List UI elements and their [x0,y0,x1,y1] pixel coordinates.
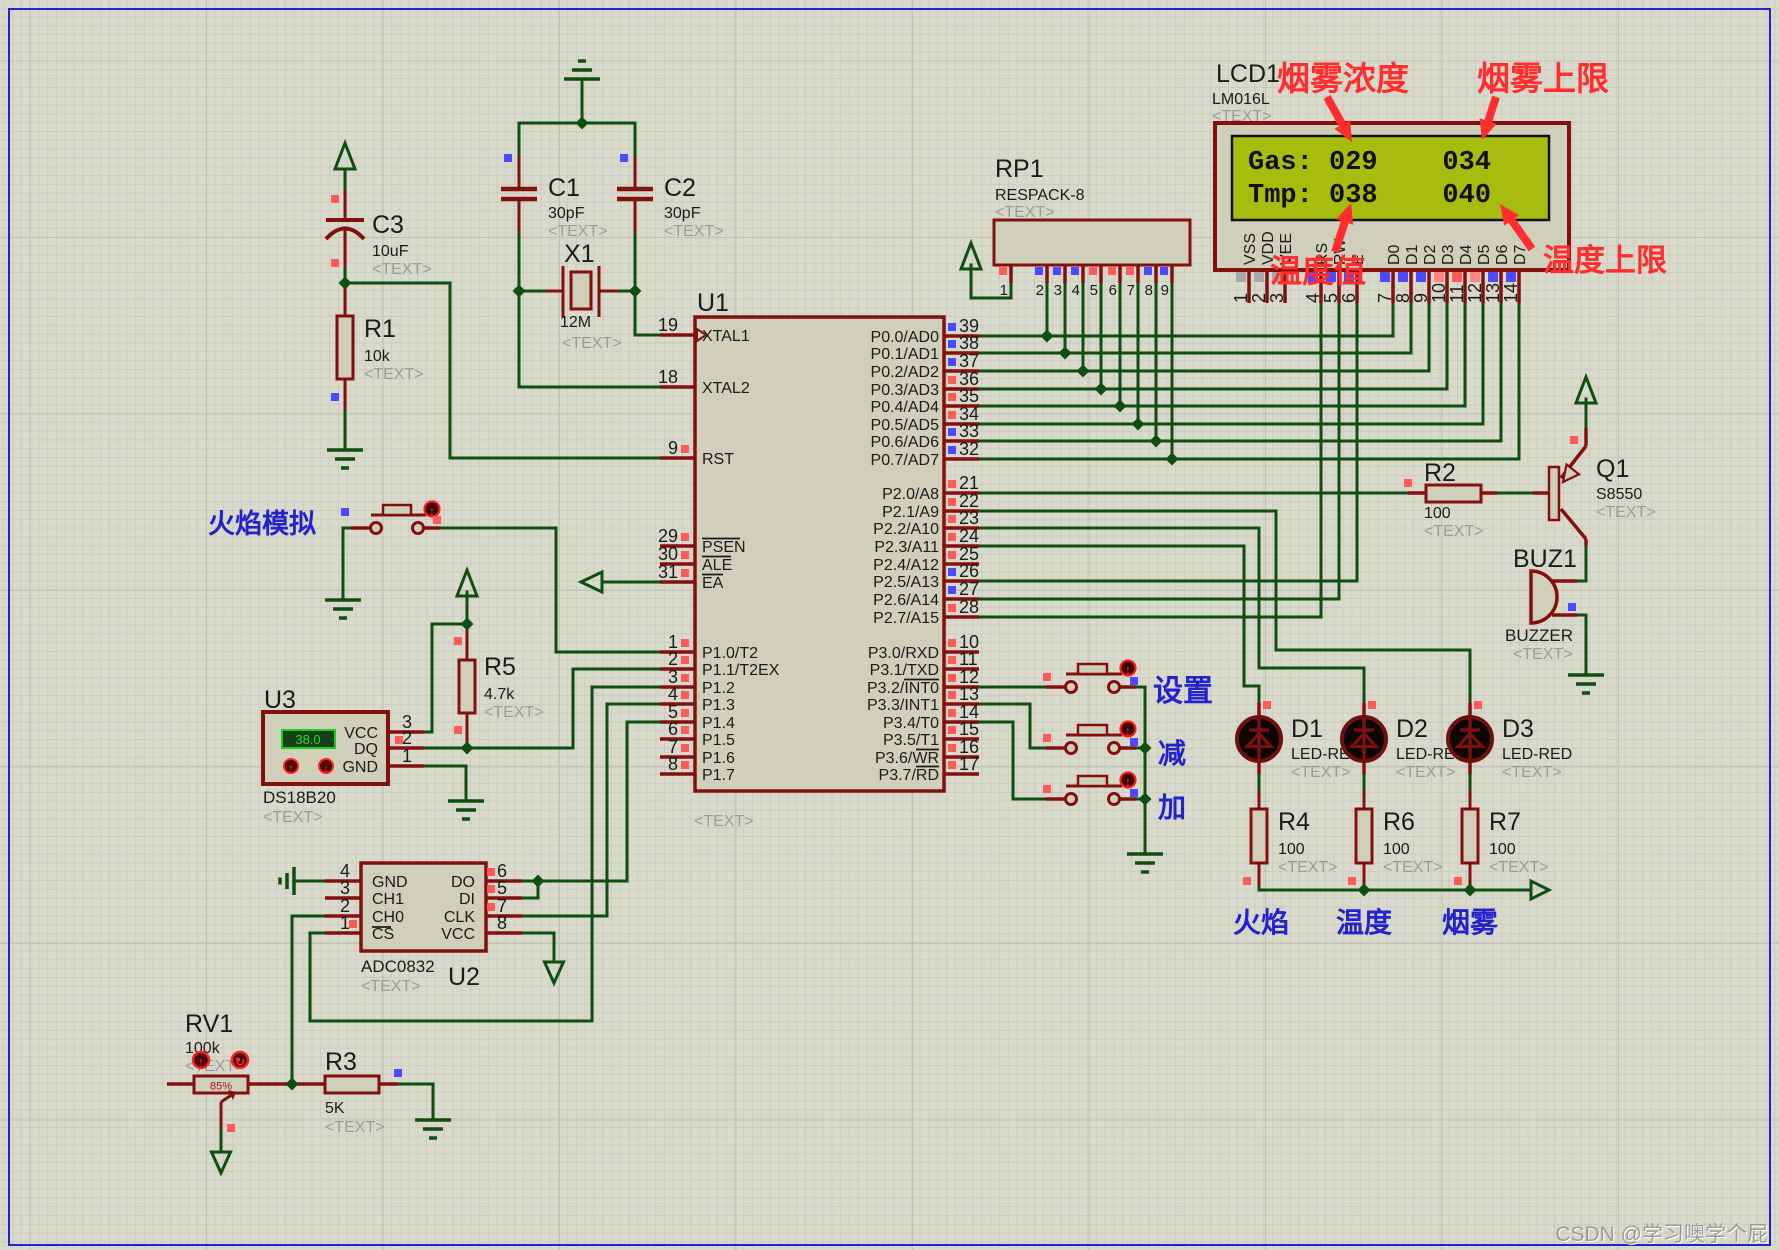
wire junction [1114,400,1127,413]
resistor R6 leads [1363,792,1366,809]
handle D3 top [1474,701,1482,709]
svg-text:P2.6/A14: P2.6/A14 [873,592,939,609]
pin 35 P0.4/AD4 [871,386,980,416]
pin 27 P2.6/A14 [873,579,979,609]
pin 24 P2.3/A11 [874,526,979,556]
svg-text:<TEXT>: <TEXT> [263,809,323,826]
wire junction [532,875,545,888]
resistor R7 [1462,808,1549,876]
wire minus button to common [1136,747,1145,750]
svg-text:P0.2/AD2: P0.2/AD2 [871,364,940,381]
svg-text:XTAL1: XTAL1 [702,328,750,345]
svg-text:DO: DO [451,874,475,891]
handle RV1 wiper [227,1124,235,1132]
svg-text:↓: ↓ [323,761,329,775]
svg-text:P0.5/AD5: P0.5/AD5 [871,417,940,434]
svg-text:P2.0/A8: P2.0/A8 [882,486,939,503]
svg-text:C3: C3 [372,211,404,239]
svg-text:BUZZER: BUZZER [1505,626,1573,645]
svg-text:19: 19 [658,315,678,335]
svg-text:D2: D2 [1422,244,1439,265]
svg-text:D2: D2 [1396,715,1428,743]
arrow smoke limit [1480,97,1497,140]
pin 26 P2.5/A13 [873,561,979,591]
LED D3 [1448,703,1572,781]
svg-text:温度上限: 温度上限 [1543,243,1667,278]
resistor R4 [1251,808,1338,876]
ground below U3 [448,801,484,819]
handle C3 top [331,195,339,203]
wire U2 CLK to P1.3 [522,704,660,916]
svg-text:C1: C1 [548,174,580,202]
pin 18 XTAL2 [658,367,750,397]
svg-text:X1: X1 [564,240,595,268]
svg-text:减: 减 [1158,738,1186,769]
wire RP1 pin3 drop [1064,283,1067,353]
svg-text:D0: D0 [1386,244,1403,265]
pin 29 PSEN [658,526,746,556]
svg-text:9: 9 [1161,282,1169,299]
svg-text:2: 2 [402,728,412,748]
wire C3 to R1 node / RST net [345,266,660,458]
wire C1 bottom to X1 left [519,231,547,291]
svg-text:S8550: S8550 [1596,486,1642,503]
svg-text:32: 32 [959,439,979,459]
temperature sensor U3 DS18B20 [263,686,424,826]
svg-text:<TEXT>: <TEXT> [1396,764,1456,781]
wire plus button to common [1136,798,1145,801]
svg-text:10uF: 10uF [372,243,409,260]
svg-text:3: 3 [1267,293,1287,303]
svg-text:烟雾: 烟雾 [1442,907,1499,938]
pin 5 P1.4 [660,702,735,732]
wire C1C2 top rail [519,123,635,158]
svg-text:P0.6/AD6: P0.6/AD6 [871,434,940,451]
svg-text:5: 5 [1090,282,1098,299]
ground below BUZ1 [1568,675,1604,693]
svg-text:5K: 5K [325,1100,345,1117]
wire junction [1150,435,1163,448]
wire R1 to ground [344,408,347,450]
svg-text:EA: EA [702,575,724,592]
wire power arrow to R5 top node [466,592,469,624]
handle R5 top [454,637,462,645]
crystal X1 leads [547,290,563,293]
wire buttons common to ground [1136,687,1145,854]
svg-text:R4: R4 [1278,808,1310,836]
pin 12 P3.2/INT0 [867,667,979,697]
ADC U2 ADC0832 [325,861,522,995]
wire R3 to ground [398,1084,433,1120]
svg-text:RESPACK-8: RESPACK-8 [995,187,1085,204]
svg-text:23: 23 [959,508,979,528]
svg-text:28: 28 [959,597,979,617]
svg-text:21: 21 [959,473,979,493]
potentiometer RV1 [167,1010,325,1128]
svg-text:P1.4: P1.4 [702,715,735,732]
svg-text:13: 13 [1483,283,1503,303]
svg-text:37: 37 [959,351,979,371]
svg-text:3: 3 [340,878,350,898]
wire junction [1166,453,1179,466]
svg-text:P1.7: P1.7 [702,767,735,784]
resistor R2 [1408,459,1497,540]
svg-text:↕: ↕ [1125,724,1131,738]
handle Q1 emitter [1570,436,1578,444]
pin 7 P1.6 [660,737,735,767]
wire VCC arrow to C3 [344,169,347,191]
svg-text:D5: D5 [1476,244,1493,265]
pin 13 P3.3/INT1 [867,684,979,714]
handle R2 left [1404,479,1412,487]
ground below buttons [1127,854,1163,872]
svg-text:30pF: 30pF [664,205,701,222]
svg-text:PSEN: PSEN [702,539,746,556]
wire P2.3 to LED D1 [979,546,1259,703]
svg-text:D3: D3 [1502,715,1534,743]
svg-text:<TEXT>: <TEXT> [1291,764,1351,781]
wire P2.1 to LED D3 [979,511,1470,703]
svg-text:GND: GND [342,759,378,776]
svg-text:P0.1/AD1: P0.1/AD1 [871,346,940,363]
wire junction [513,285,526,298]
svg-text:P0.3/AD3: P0.3/AD3 [871,382,940,399]
handle D1 top [1263,701,1271,709]
pin 31 EA [658,562,724,592]
pin 32 P0.7/AD7 [871,439,980,469]
wire RP1 pin4 drop [1082,283,1085,371]
pin 23 P2.2/A10 [873,508,979,538]
svg-text:P2.5/A13: P2.5/A13 [873,574,939,591]
svg-text:<TEXT>: <TEXT> [1383,859,1443,876]
wire P0.1/AD1 to LCD D1 [979,303,1411,353]
resistor R1 leads [344,286,347,316]
svg-text:8: 8 [497,913,507,933]
svg-text:38.0: 38.0 [295,732,320,747]
svg-text:6: 6 [668,719,678,739]
svg-text:DI: DI [459,891,475,908]
pin 10 P3.0/RXD [868,632,979,662]
svg-text:RP1: RP1 [995,155,1044,183]
svg-text:<TEXT>: <TEXT> [562,335,622,352]
capacitor C1 [501,174,608,240]
minus button [1043,722,1138,754]
wire resistor bus to arrow [1259,884,1529,890]
wire ground stem top rail [581,79,584,123]
svg-text:LM016L: LM016L [1212,91,1270,108]
wire junction [629,285,642,298]
svg-text:<TEXT>: <TEXT> [372,261,432,278]
wire X1 right to XTAL1 pin19 [635,291,660,335]
svg-text:P2.1/A9: P2.1/A9 [882,504,939,521]
power symbol at LED bus [1531,881,1549,899]
wire P2.5 to LCD E [979,303,1357,581]
svg-text:↑: ↑ [198,1055,204,1069]
svg-text:P3.5/T1: P3.5/T1 [883,732,939,749]
svg-text:U1: U1 [697,289,729,317]
pin 36 P0.3/AD3 [871,369,980,399]
wire junction [1464,884,1477,897]
svg-text:CLK: CLK [444,909,475,926]
wire junction [1041,330,1054,343]
handle R7 bottom [1454,877,1462,885]
power symbol above Q1 [1576,377,1596,403]
handle BUZ1 [1568,603,1576,611]
svg-text:<TEXT>: <TEXT> [1424,523,1484,540]
resistor R5 [459,653,544,721]
handle R5 bottom [454,726,462,734]
svg-text:↕: ↕ [429,504,435,518]
resistor R7 leads [1469,792,1472,809]
plus button [1043,773,1138,805]
wire RP1 pin5 drop [1100,283,1103,389]
wire junction [286,1078,299,1091]
power symbol above C3 [335,143,355,169]
svg-text:LCD1: LCD1 [1216,60,1280,88]
svg-text:LED-RED: LED-RED [1502,746,1572,763]
pin 37 P0.2/AD2 [871,351,980,381]
svg-text:烟雾上限: 烟雾上限 [1477,60,1609,97]
svg-text:3: 3 [1054,282,1062,299]
svg-text:D1: D1 [1291,715,1323,743]
wire RP1 pin2 drop [1046,283,1049,336]
pin 8 P1.7 [660,754,735,784]
svg-text:17: 17 [959,754,979,774]
svg-text:P3.7/RD: P3.7/RD [879,767,939,784]
svg-text:火焰模拟: 火焰模拟 [208,509,316,539]
svg-text:火焰: 火焰 [1233,907,1289,938]
svg-text:P3.0/RXD: P3.0/RXD [868,645,939,662]
svg-text:P1.6: P1.6 [702,750,735,767]
svg-text:P3.4/T0: P3.4/T0 [883,715,939,732]
svg-text:烟雾浓度: 烟雾浓度 [1277,60,1409,97]
svg-text:4: 4 [1303,293,1323,303]
pin 1 P1.0/T2 [660,632,758,662]
pin 17 P3.7/RD [879,754,980,784]
capacitor C1 leads [518,158,521,187]
svg-text:9: 9 [1411,293,1431,303]
svg-text:11: 11 [959,649,978,669]
buzzer BUZ1 [1505,545,1577,663]
ground below R3 [415,1120,451,1138]
wire U3 VCC to R5 top node [424,624,467,732]
svg-text:5: 5 [497,878,507,898]
svg-text:1: 1 [402,746,412,766]
svg-text:27: 27 [959,579,979,599]
pin 22 P2.1/A9 [882,491,979,521]
watermark [1555,1223,1769,1247]
svg-text:100: 100 [1489,841,1516,858]
svg-text:P2.7/A15: P2.7/A15 [873,610,939,627]
wire LED D1 to R4 [1258,774,1261,792]
wire junction [339,277,352,290]
wire junction [1059,347,1072,360]
svg-text:100: 100 [1278,841,1305,858]
crystal X1 [560,240,622,352]
svg-text:P3.2/INT0: P3.2/INT0 [867,680,939,697]
wire junction [461,742,474,755]
wire P0.2/AD2 to LCD D2 [979,303,1429,371]
svg-text:100: 100 [1383,841,1410,858]
power symbol at EA pin [581,572,602,592]
svg-text:33: 33 [959,421,979,441]
pin 21 P2.0/A8 [882,473,979,503]
svg-text:P1.1/T2EX: P1.1/T2EX [702,662,780,679]
svg-text:<TEXT>: <TEXT> [484,704,544,721]
wire Q1 collector to BUZ1 [1577,546,1586,581]
wire P0.4/AD4 to LCD D4 [979,303,1465,406]
ground below flame button [325,600,361,618]
flame simulation button [341,502,441,534]
svg-text:5: 5 [1321,293,1341,303]
svg-text:1: 1 [340,913,350,933]
power symbol above R5 [457,570,477,596]
wire U2 CH0 to RV1 node [292,916,325,1084]
svg-text:VCC: VCC [344,725,378,742]
svg-text:P0.0/AD0: P0.0/AD0 [871,329,940,346]
svg-text:XTAL2: XTAL2 [702,380,750,397]
power symbol below RV1 wiper [212,1152,231,1173]
svg-text:2: 2 [1249,293,1269,303]
svg-text:CH0: CH0 [372,909,404,926]
svg-text:RV1: RV1 [185,1010,233,1038]
svg-text:<TEXT>: <TEXT> [548,223,608,240]
svg-text:↕: ↕ [1125,775,1131,789]
capacitor C2 leads [634,158,637,187]
wire R2 to Q1 base [1497,492,1533,495]
LCD display LCD1 LM016L [1212,60,1569,303]
svg-text:13: 13 [959,684,979,704]
svg-text:CH1: CH1 [372,891,404,908]
svg-text:<TEXT>: <TEXT> [364,366,424,383]
pin 9 RST [660,438,734,468]
power symbol at RP1 pin1 [961,243,981,269]
svg-text:29: 29 [658,526,678,546]
svg-text:↑: ↑ [288,761,294,775]
handle C3 bottom [331,259,339,267]
wire flame button left to ground [343,528,353,600]
pin 19 XTAL1 [658,315,750,345]
wire P0.3/AD3 to LCD D3 [979,303,1447,389]
svg-text:26: 26 [959,561,979,581]
svg-text:↻: ↻ [235,1055,245,1069]
svg-text:8: 8 [1145,282,1153,299]
LED D1 [1237,703,1361,781]
handle R1 bottom [331,393,339,401]
svg-text:8: 8 [668,754,678,774]
svg-text:CS: CS [372,926,394,943]
svg-text:12: 12 [1465,283,1485,303]
wire junction [1139,793,1152,806]
wire RP1 pin9 drop [1171,283,1174,459]
svg-text:7: 7 [1127,282,1135,299]
wire U2 DI to DO node [522,881,538,898]
arrow temperature value [1335,203,1353,252]
svg-text:4.7k: 4.7k [484,686,515,703]
transistor Q1 S8550 [1533,428,1656,546]
svg-text:10k: 10k [364,348,391,365]
svg-text:U3: U3 [264,686,296,714]
svg-text:P0.7/AD7: P0.7/AD7 [871,452,940,469]
wire P3.3 to minus button [979,704,1047,748]
svg-text:6: 6 [1109,282,1117,299]
pin 15 P3.5/T1 [883,719,979,749]
svg-text:P2.4/A12: P2.4/A12 [873,557,939,574]
svg-text:8: 8 [1393,293,1413,303]
svg-text:<TEXT>: <TEXT> [1502,764,1562,781]
ground at U2 GND [280,867,294,895]
pin 6 P1.5 [660,719,735,749]
wire R7 bottom [1469,884,1472,890]
svg-text:R5: R5 [484,653,516,681]
wire C2 bottom to X1 right [617,231,635,291]
svg-text:<TEXT>: <TEXT> [1212,108,1272,125]
resistor R6 [1356,808,1443,876]
svg-text:6: 6 [1339,293,1359,303]
svg-text:加: 加 [1158,792,1186,823]
wire BUZ1 to ground [1577,615,1586,675]
svg-text:RST: RST [702,451,734,468]
wire LED D3 to R7 [1469,774,1472,792]
svg-text:<TEXT>: <TEXT> [694,813,754,830]
svg-text:1: 1 [1231,293,1251,303]
resistor R5 leads [466,628,469,660]
svg-text:DQ: DQ [354,741,378,758]
svg-text:Gas: 029 034: Gas: 029 034 [1248,148,1491,178]
wire P2.7 to LCD RS [979,303,1321,617]
resistor R3 [325,1048,398,1136]
wire RP1 pin1 to power arrow [971,265,1011,298]
handle R6 bottom [1348,877,1356,885]
wire junction [1132,418,1145,431]
wire U2 CS to P1.2 [310,687,660,1021]
wire power arrow to Q1 emitter [1585,399,1588,428]
wire P3.4 to plus button [979,722,1047,799]
svg-text:14: 14 [1501,283,1521,303]
svg-text:18: 18 [658,367,678,387]
svg-text:P2.2/A10: P2.2/A10 [873,521,939,538]
svg-text:2: 2 [1036,282,1044,299]
pin 14 P3.4/T0 [883,702,979,732]
svg-text:10: 10 [1429,283,1449,303]
svg-text:DS18B20: DS18B20 [263,788,336,807]
svg-text:<TEXT>: <TEXT> [664,223,724,240]
svg-text:R2: R2 [1424,459,1456,487]
wire P0.0/AD0 to LCD D0 [979,303,1393,336]
wire junction [461,618,474,631]
svg-text:38: 38 [959,333,979,353]
wire P0.6/AD6 to LCD D6 [979,303,1501,441]
ground above C1 C2 [564,61,600,79]
svg-text:U2: U2 [448,963,480,991]
pin 25 P2.4/A12 [873,544,979,574]
wire DQ net U3 to P1.1 [424,669,660,748]
op-amp U1 body (8051 MCU) [694,289,944,830]
pin 3 P1.2 [660,667,735,697]
svg-text:<TEXT>: <TEXT> [995,204,1055,221]
wire flame button to P1.0 [437,528,660,652]
svg-text:9: 9 [668,438,678,458]
pin 34 P0.5/AD5 [871,404,980,434]
pin 30 ALE [658,544,732,574]
handle R3 right [394,1069,402,1077]
wire junction [1358,884,1371,897]
svg-text:31: 31 [658,562,678,582]
svg-text:35: 35 [959,386,979,406]
capacitor C3 [326,211,432,278]
wire junction [1139,742,1152,755]
wire RP1 pin7 drop [1137,283,1140,424]
